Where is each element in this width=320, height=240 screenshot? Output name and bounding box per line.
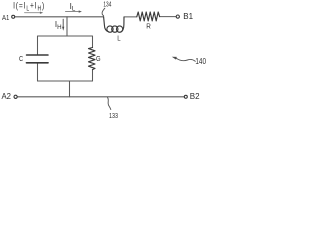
resistor R zigzag bbox=[137, 12, 160, 21]
wire top rail bbox=[38, 36, 93, 54]
svg-text:I(=IL+IH): I(=IL+IH) bbox=[13, 0, 45, 12]
wire cap lower lead bbox=[37, 64, 39, 81]
svg-text:G: G bbox=[96, 54, 101, 63]
leader 140 bbox=[176, 58, 196, 61]
svg-text:A2: A2 bbox=[2, 92, 12, 101]
svg-text:C: C bbox=[19, 54, 24, 63]
svg-text:A1: A1 bbox=[2, 13, 9, 22]
svg-text:L: L bbox=[117, 34, 120, 43]
terminal B2 bbox=[184, 95, 187, 98]
wire bottom rail bbox=[38, 80, 93, 82]
svg-text:133: 133 bbox=[109, 111, 118, 120]
resistor G zigzag bbox=[89, 48, 96, 70]
wire L to R bbox=[124, 16, 136, 18]
current arrow I bbox=[25, 12, 41, 14]
svg-text:B1: B1 bbox=[183, 12, 193, 21]
terminal A1 bbox=[12, 15, 15, 18]
current arrow IH bbox=[62, 19, 64, 27]
inductor L bbox=[104, 17, 109, 32]
wire top A1 to L bbox=[15, 16, 104, 18]
leader 133 bbox=[108, 98, 111, 110]
wire shunt branch bbox=[66, 17, 68, 36]
terminal B1 bbox=[176, 15, 179, 18]
svg-text:IL: IL bbox=[70, 2, 76, 13]
leader 134 bbox=[102, 8, 105, 16]
svg-text:IH: IH bbox=[55, 20, 62, 31]
wire rail to bottom bbox=[69, 81, 71, 97]
svg-text:140: 140 bbox=[195, 57, 206, 66]
wire G lower lead bbox=[92, 70, 94, 81]
svg-text:B2: B2 bbox=[190, 92, 200, 101]
arrowhead 140 bbox=[172, 57, 177, 60]
terminal A2 bbox=[14, 95, 17, 98]
svg-text:134: 134 bbox=[103, 0, 111, 8]
wire R to B1 bbox=[160, 16, 176, 18]
current arrow IL bbox=[66, 11, 79, 13]
capacitor C plates bbox=[27, 54, 49, 56]
wire bottom A2 to B2 bbox=[17, 96, 184, 98]
svg-text:R: R bbox=[146, 21, 151, 30]
